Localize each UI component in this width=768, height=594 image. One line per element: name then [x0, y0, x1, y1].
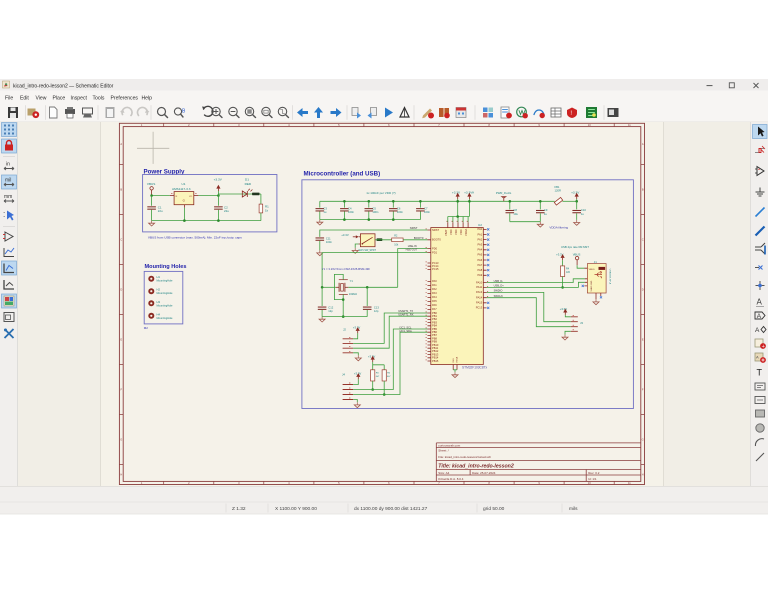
svg-text:PA15: PA15: [476, 301, 483, 305]
mounting hole H4: [148, 312, 173, 320]
wire MCU bottom VSS: [453, 370, 457, 372]
junctions cap bank: [343, 200, 422, 221]
label SWDIO: [494, 289, 503, 293]
svg-text:VBAT: VBAT: [444, 229, 448, 236]
svg-text:PA5: PA5: [432, 299, 437, 303]
svg-text:A: A: [757, 298, 763, 307]
wire VBUS to U1: [152, 195, 170, 197]
svg-text:G: G: [120, 438, 122, 442]
svg-text:in: in: [6, 162, 10, 168]
svg-text:PA0: PA0: [477, 227, 482, 231]
wire J4 pin1: [353, 379, 358, 384]
svg-text:PA3: PA3: [432, 291, 437, 295]
regulator U1 AMS1117-3.3: [170, 182, 199, 208]
svg-text:E: E: [120, 338, 122, 342]
wire J3 pin1: [565, 315, 571, 317]
menu bar: [0, 91, 768, 104]
power symbol +3.3V at R5 R6: [368, 355, 376, 363]
svg-text:VDDA filtering: VDDA filtering: [549, 225, 568, 229]
left tool rail: [0, 122, 18, 486]
svg-text:12p: 12p: [374, 309, 379, 313]
sheet frame: [119, 123, 644, 484]
svg-text:PA11: PA11: [476, 285, 483, 289]
power symbol +3.3V at J3: [560, 307, 568, 315]
svg-text:BOOT0: BOOT0: [432, 238, 441, 242]
wire SW1 left-bottom to ground: [355, 244, 358, 248]
main toolbar: [0, 103, 768, 122]
PWR_FLAG: [496, 191, 511, 201]
section box Microcontroller (and USB): [302, 170, 634, 408]
svg-text:Preferences: Preferences: [111, 95, 139, 101]
net label segment (dark) after LED: [252, 193, 259, 196]
ground MCU: [452, 372, 458, 377]
svg-text:KiCad E.D.A. 8.0.4: KiCad E.D.A. 8.0.4: [438, 477, 464, 481]
capacitor C9: [536, 200, 548, 222]
connector J4: [342, 372, 353, 399]
capacitor C7: [416, 201, 430, 219]
power symbol VBUS at J1: [573, 252, 581, 265]
svg-text:File: kicad_intro-redo-lesson2: File: kicad_intro-redo-lesson2.kicad.sch: [438, 455, 491, 459]
ground SW1: [352, 248, 358, 253]
svg-text:PB15: PB15: [432, 359, 439, 363]
svg-text:MountingHole: MountingHole: [157, 291, 174, 295]
note VDDA filtering: [549, 225, 568, 229]
origin crosshair: [137, 132, 169, 164]
svg-text:PA13: PA13: [476, 290, 483, 294]
wire top power rail: [320, 200, 555, 202]
svg-text:USB_D-: USB_D-: [494, 279, 504, 283]
svg-text:PA7: PA7: [477, 263, 482, 267]
capacitor C3: [316, 201, 328, 219]
wire R1 to bottom rail: [260, 213, 262, 221]
svg-text:mil: mil: [5, 178, 11, 184]
resistor R4: [561, 266, 571, 277]
svg-text:B: B: [120, 188, 122, 192]
svg-text:Sheet: /: Sheet: /: [438, 449, 449, 453]
svg-text:H: H: [120, 473, 122, 477]
wire J2 pin1: [353, 333, 358, 339]
svg-text:M2: M2: [144, 326, 148, 330]
svg-text:Size: A4: Size: A4: [438, 471, 449, 475]
svg-text:VBUS: VBUS: [573, 252, 581, 256]
svg-text:A: A: [757, 313, 762, 320]
svg-text:A: A: [642, 142, 644, 146]
label SWCLK: [494, 294, 503, 298]
svg-text:12p: 12p: [328, 309, 333, 313]
svg-text:Place: Place: [53, 95, 66, 101]
resistor R6: [382, 370, 391, 381]
wire crystal case loop: [334, 274, 343, 316]
svg-text:VDD: VDD: [454, 229, 458, 235]
junction crystal case: [342, 298, 345, 318]
connector J2: [343, 327, 354, 352]
svg-text:View: View: [36, 95, 47, 101]
svg-text:I2C1_SCL: I2C1_SCL: [400, 326, 413, 330]
note USB: [561, 245, 589, 249]
wire HSE-IN net: [398, 249, 428, 288]
svg-text:MountingHole: MountingHole: [157, 303, 174, 307]
svg-text:NRST: NRST: [432, 228, 439, 232]
wire USB_D+: [487, 282, 585, 287]
svg-text:SHLD GND: SHLD GND: [591, 280, 593, 291]
svg-text:AMS1117-3.3: AMS1117-3.3: [172, 187, 191, 191]
label HSE-IN: [408, 244, 417, 248]
svg-text:U2: U2: [478, 223, 482, 227]
svg-text:PA5: PA5: [477, 253, 482, 257]
VDD bus wire: [448, 215, 470, 222]
svg-text:PA1: PA1: [432, 283, 437, 287]
svg-text:22u: 22u: [224, 209, 229, 213]
junction C2 bottom: [217, 219, 220, 222]
svg-text:100n: 100n: [348, 210, 354, 214]
wire FB1 to +3.3V: [562, 200, 576, 202]
svg-text:C7: C7: [424, 206, 428, 210]
wire I2C1_SCL: [353, 329, 427, 390]
svg-text:PA14: PA14: [476, 296, 483, 300]
right rail icons: [753, 125, 768, 462]
svg-text:PC15: PC15: [432, 267, 439, 271]
svg-text:C3: C3: [323, 206, 327, 210]
svg-text:File: File: [5, 95, 13, 101]
svg-text:H1: H1: [157, 275, 161, 279]
resistor R2: [392, 235, 403, 247]
svg-text:10u: 10u: [513, 212, 518, 216]
svg-text:NRST: NRST: [410, 226, 418, 230]
ground C9: [537, 222, 543, 227]
svg-text:RED: RED: [245, 182, 252, 186]
MCU U2 STM32F103C8Tx: [431, 221, 488, 369]
ground J3: [562, 335, 568, 340]
svg-text:C8: C8: [513, 208, 517, 212]
power symbol +3.3V at R4: [556, 252, 565, 266]
ground J4: [354, 402, 360, 407]
svg-text:SW1 SW_SPDT: SW1 SW_SPDT: [359, 249, 377, 252]
mounting hole H3: [148, 300, 173, 308]
label USB_D-: [494, 279, 504, 283]
svg-text:U1: U1: [182, 182, 186, 186]
label I2C1_SCL: [400, 326, 413, 330]
label USB_D+: [494, 283, 505, 287]
svg-text:C5: C5: [372, 206, 376, 210]
svg-text:J3: J3: [580, 321, 583, 325]
svg-text:PA2: PA2: [432, 287, 437, 291]
svg-text:USB 4px rate 6M MST: USB 4px rate 6M MST: [561, 245, 589, 249]
svg-text:H: H: [642, 473, 644, 477]
svg-text:+3.3V: +3.3V: [341, 233, 349, 237]
switch SW1: [359, 234, 377, 252]
svg-text:C: C: [120, 238, 122, 242]
power symbol +3.3V at SW1: [341, 233, 358, 238]
svg-text:I2C1_SDA: I2C1_SDA: [400, 329, 413, 333]
note text power supply: [148, 235, 242, 239]
svg-text:100n: 100n: [326, 240, 332, 244]
wire J4 pin4 to ground: [353, 400, 357, 403]
wire R2 to BOOT0: [403, 239, 427, 241]
wire J1 gnd: [596, 293, 602, 299]
power symbol +3.3V at J4: [354, 372, 362, 380]
svg-text:MountingHole: MountingHole: [157, 279, 174, 283]
svg-text:kicad_intro-redo-lesson2 — Sch: kicad_intro-redo-lesson2 — Schematic Edi…: [13, 83, 114, 89]
svg-text:1u: 1u: [544, 212, 547, 216]
svg-text:USART1_RX: USART1_RX: [398, 313, 414, 317]
mounting hole H1: [148, 275, 173, 283]
svg-text:J2: J2: [343, 327, 346, 331]
svg-text:C6: C6: [397, 206, 401, 210]
svg-text:T: T: [757, 368, 763, 378]
svg-text:16MHz: 16MHz: [349, 292, 358, 296]
svg-text:PC13: PC13: [476, 306, 483, 310]
svg-text:C10: C10: [581, 208, 586, 212]
svg-text:BOOT0: BOOT0: [414, 236, 424, 240]
wire USART1_RX: [353, 316, 427, 348]
svg-text:A: A: [755, 327, 760, 334]
main toolbar icons: [8, 106, 619, 120]
label HSE-OUT: [406, 248, 418, 252]
wire I2C1_SDA: [353, 332, 427, 394]
wire R5 bottom: [371, 381, 374, 391]
svg-text:E: E: [642, 338, 644, 342]
svg-text:VSS: VSS: [453, 358, 455, 363]
svg-text:C13: C13: [374, 305, 379, 309]
title block: [436, 443, 641, 482]
junction U1 gnd bottom: [183, 219, 186, 222]
label I2C1_SDA: [400, 329, 413, 333]
note text caps: [366, 191, 395, 195]
ground J2: [355, 355, 361, 360]
svg-text:1u: 1u: [581, 212, 584, 216]
connector J3: [571, 315, 584, 331]
left rail icons: [2, 123, 17, 339]
svg-text:mm: mm: [4, 194, 12, 200]
wire R6 bottom: [383, 381, 386, 396]
svg-text:mils: mils: [569, 506, 578, 512]
power symbol +3.3V right: [571, 191, 580, 203]
ground cap bank: [317, 220, 323, 225]
svg-text:USART1_TX: USART1_TX: [398, 309, 413, 313]
svg-text:VDD: VDD: [449, 229, 453, 235]
svg-text:VDDA: VDDA: [464, 229, 468, 236]
capacitor C12: [318, 287, 334, 316]
svg-text:H2: H2: [157, 288, 161, 292]
svg-text:PWR_FLAG: PWR_FLAG: [496, 191, 511, 195]
svg-text:Tools: Tools: [93, 95, 105, 101]
label NRST: [410, 226, 418, 230]
ground J1: [593, 299, 599, 304]
svg-text:PA4: PA4: [477, 248, 482, 252]
ground power supply: [149, 221, 155, 226]
svg-text:PA10: PA10: [476, 280, 483, 284]
svg-text:1k5: 1k5: [566, 271, 571, 274]
svg-text:J4: J4: [342, 372, 345, 376]
mounting hole H2: [148, 288, 173, 296]
svg-text:Y1 = 3.2X2.5mm-CSM-3X25-BSM-49: Y1 = 3.2X2.5mm-CSM-3X25-BSM-49F: [322, 267, 371, 271]
wire NRST net: [320, 230, 428, 237]
svg-text:USB_D+: USB_D+: [494, 283, 505, 287]
label USART1_RX: [398, 313, 414, 317]
svg-text:D: D: [120, 288, 122, 292]
svg-text:VBUS: VBUS: [147, 182, 155, 186]
capacitor C5: [365, 201, 379, 219]
svg-text:+3.3V: +3.3V: [571, 191, 580, 195]
wire crystal bottom: [322, 316, 367, 318]
capacitor C6: [389, 201, 403, 219]
svg-text:1x 100nF per VDD (?): 1x 100nF per VDD (?): [366, 191, 395, 195]
wire J2 pin4 to ground: [353, 353, 358, 356]
wire corner to R1: [260, 194, 262, 204]
svg-text:PA3: PA3: [477, 243, 482, 247]
svg-text:100n: 100n: [424, 210, 430, 214]
capacitor C10: [572, 201, 586, 220]
svg-text:Date: 25-07-2024: Date: 25-07-2024: [472, 471, 496, 475]
svg-text:SWDIO: SWDIO: [494, 289, 503, 293]
junction at C1 top: [150, 194, 153, 197]
svg-text:Help: Help: [142, 95, 153, 101]
svg-text:B: B: [642, 188, 644, 192]
svg-text:+3.3V: +3.3V: [214, 178, 223, 182]
capacitor C4: [340, 201, 354, 219]
svg-text:D: D: [642, 288, 644, 292]
svg-text:PA8: PA8: [477, 268, 482, 272]
status bar: [0, 486, 768, 594]
canvas background: [18, 122, 750, 486]
wire C8-C9 ground: [510, 221, 541, 223]
wire J3 pin4 to ground: [565, 331, 571, 334]
svg-text:PA1: PA1: [477, 232, 482, 236]
svg-text:X 1100.00 Y 900.00: X 1100.00 Y 900.00: [275, 506, 317, 512]
svg-text:Rev: 0.2: Rev: 0.2: [588, 471, 600, 475]
svg-text:FB1: FB1: [555, 185, 560, 189]
wire U1 GND down: [183, 208, 185, 221]
LED D1: [242, 178, 252, 197]
label USART1_TX: [398, 309, 413, 313]
power symbol +3.3VA: [464, 191, 475, 217]
svg-text:PA6: PA6: [432, 303, 437, 307]
resistor R1: [259, 204, 269, 213]
capacitor C8: [506, 200, 519, 222]
svg-text:Mounting Holes: Mounting Holes: [145, 264, 187, 270]
capacitor C1: [147, 196, 163, 221]
svg-text:PA9: PA9: [477, 273, 482, 277]
right tool rail: [750, 122, 768, 486]
svg-text:Inspect: Inspect: [71, 95, 88, 101]
section box Mounting Holes: [144, 264, 187, 330]
svg-text:D1: D1: [245, 178, 249, 182]
junction crystal row: [321, 286, 369, 289]
svg-text:+3.3V: +3.3V: [353, 325, 361, 329]
capacitor C2: [214, 196, 229, 221]
svg-text:Id: 1/1: Id: 1/1: [588, 477, 597, 481]
svg-text:22u: 22u: [158, 209, 163, 213]
power symbol VBUS: [147, 182, 155, 196]
svg-text:Title: kicad_intro-redo-lesson: Title: kicad_intro-redo-lesson2: [438, 463, 514, 469]
wire SWDIO: [487, 292, 571, 321]
svg-text:A: A: [120, 142, 122, 146]
svg-text:H4: H4: [157, 312, 161, 316]
ground crystal: [319, 317, 325, 322]
wire R4 bottom: [561, 277, 564, 289]
power symbol +3.3V: [214, 178, 223, 196]
resistor R5: [371, 370, 380, 381]
ground C10: [574, 220, 580, 225]
svg-text:H3: H3: [157, 300, 161, 304]
crystal Y1 16MHz: [336, 279, 358, 296]
wire USART1_TX: [353, 313, 427, 343]
label BOOT0: [414, 236, 424, 240]
wire cap bank bottom: [320, 219, 421, 221]
svg-text:SWCLK: SWCLK: [494, 294, 503, 298]
svg-text:dx 1100.00 dy 900.00 dist 14: dx 1100.00 dy 900.00 dist 1421.27: [354, 506, 428, 512]
svg-text:USB4105-GF-A: USB4105-GF-A: [608, 269, 611, 285]
svg-text:100n: 100n: [397, 210, 403, 214]
window title bar: [0, 79, 768, 91]
svg-text:PA4: PA4: [432, 295, 437, 299]
svg-text:MountingHole: MountingHole: [157, 316, 174, 320]
svg-text:curiouscrab.com: curiouscrab.com: [438, 443, 461, 447]
net tie dark segment SW1: [377, 238, 383, 241]
svg-text:Edit: Edit: [20, 95, 29, 101]
svg-text:PA0: PA0: [432, 279, 437, 283]
svg-text:+: +: [762, 344, 765, 350]
svg-text:HSE-IN: HSE-IN: [408, 244, 417, 248]
svg-text:VBUS: VBUS: [589, 269, 595, 271]
note crystal: [322, 267, 371, 271]
wire pullup feed: [373, 362, 385, 370]
usb connector J1: [582, 260, 612, 293]
svg-text:A: A: [756, 355, 759, 360]
wire VBUS to J1: [577, 265, 584, 268]
svg-text:PA6: PA6: [477, 258, 482, 262]
svg-text:C12: C12: [328, 305, 333, 309]
wire U1 out to LED: [198, 194, 261, 196]
wire crystal row: [322, 286, 398, 288]
svg-text:HSE-OUT: HSE-OUT: [406, 248, 418, 252]
svg-text:120R: 120R: [555, 188, 561, 192]
section box Power Supply: [143, 168, 277, 232]
capacitor C11: [316, 236, 333, 250]
svg-text:Microcontroller (and USB): Microcontroller (and USB): [304, 170, 381, 177]
svg-text:G: G: [642, 438, 644, 442]
svg-text:1u: 1u: [323, 210, 326, 214]
power symbol +3.3V at J2: [353, 325, 361, 333]
svg-text:100n: 100n: [372, 210, 378, 214]
junction at +3.3V / C2: [217, 194, 220, 197]
svg-text:VSSA: VSSA: [456, 356, 459, 362]
svg-text:PA7: PA7: [432, 307, 437, 311]
MCU left pins: [426, 228, 442, 363]
svg-text:+3.3V: +3.3V: [452, 191, 461, 195]
svg-text:Z 1.32: Z 1.32: [232, 506, 246, 512]
svg-text:VDD: VDD: [459, 229, 463, 235]
svg-text:Y1: Y1: [350, 279, 354, 283]
svg-text:VO: VO: [189, 196, 192, 198]
svg-text:VBUS from USB connector (max.: VBUS from USB connector (max. 500mA); Mi…: [148, 235, 242, 239]
ferrite bead FB1: [554, 185, 562, 205]
wire HSE-OUT net: [322, 253, 427, 288]
schematic drawing: [119, 123, 644, 485]
wire SW1 to R2: [375, 239, 392, 241]
svg-text:grid 50.00: grid 50.00: [483, 506, 505, 512]
svg-text:C11: C11: [326, 236, 331, 240]
wire SWCLK: [487, 298, 571, 327]
wire USB_D-: [487, 279, 585, 283]
svg-text:PA2: PA2: [477, 237, 482, 241]
svg-text:C: C: [642, 238, 644, 242]
svg-text:PD0: PD0: [432, 246, 438, 250]
svg-text:STM32F103C8Tx: STM32F103C8Tx: [462, 366, 488, 370]
svg-text:C9: C9: [544, 208, 548, 212]
ground C11: [317, 250, 323, 255]
power symbol +3.3V at VDD bus: [452, 191, 461, 217]
